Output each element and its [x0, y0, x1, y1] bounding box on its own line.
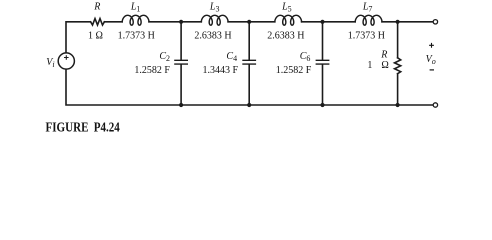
svg-text:Vi: Vi — [46, 57, 54, 69]
svg-text:L3: L3 — [209, 1, 220, 13]
svg-text:Ω: Ω — [381, 60, 388, 71]
node C junction dot bottom — [320, 103, 324, 107]
svg-text:1.3443 F: 1.3443 F — [202, 65, 238, 76]
svg-text:2.6383 H: 2.6383 H — [267, 30, 304, 41]
node B junction dot bottom — [247, 103, 251, 107]
node D junction dot top — [396, 20, 400, 24]
wire L7 to top-right terminal — [382, 21, 433, 23]
svg-text:L1: L1 — [130, 1, 141, 13]
load resistor R 1 ohm zigzag — [395, 58, 401, 74]
inductor L5 2.6383 H — [275, 15, 302, 25]
wire L5 to node C — [302, 21, 356, 23]
svg-text:1 Ω: 1 Ω — [88, 30, 103, 41]
node A junction dot top — [179, 20, 183, 24]
wire L3 to node B — [228, 21, 275, 23]
wire L1 to node A — [149, 21, 201, 23]
load resistor bottom lead — [397, 74, 399, 105]
capacitor C4 top lead — [248, 22, 250, 60]
svg-text:1: 1 — [367, 60, 372, 71]
svg-text:C4: C4 — [226, 51, 237, 63]
svg-text:1.2582 F: 1.2582 F — [276, 65, 312, 76]
svg-text:L7: L7 — [362, 1, 373, 13]
resistor R (series, 1 ohm) — [91, 19, 105, 25]
inductor L3 2.6383 H — [201, 15, 228, 25]
output terminal bottom — [433, 103, 437, 107]
svg-text:1.7373 H: 1.7373 H — [348, 30, 385, 41]
svg-text:C2: C2 — [159, 51, 170, 63]
load resistor top lead — [397, 22, 399, 58]
inductor L1 1.7373 H — [122, 15, 149, 25]
voltage source Vi circle — [58, 53, 74, 69]
svg-text:L5: L5 — [281, 1, 292, 13]
svg-text:FIGURE P4.24: FIGURE P4.24 — [46, 119, 120, 134]
wire resistor to L1 — [104, 21, 122, 23]
capacitor C6 top lead — [322, 22, 324, 60]
output plus sign — [429, 43, 434, 48]
wire source bottom to bottom rail — [66, 70, 433, 105]
node B junction dot top — [247, 20, 251, 24]
node D junction dot bottom — [396, 103, 400, 107]
svg-text:1.2582 F: 1.2582 F — [134, 65, 170, 76]
inductor L7 1.7373 H — [355, 15, 382, 25]
capacitor C4 plates — [243, 60, 255, 64]
capacitor C2 bottom lead — [180, 65, 182, 105]
output terminal top — [433, 20, 437, 24]
capacitor C2 plates — [175, 60, 187, 64]
capacitor C6 plates — [316, 60, 328, 64]
node A junction dot bottom — [179, 103, 183, 107]
capacitor C4 bottom lead — [248, 65, 250, 105]
capacitor C6 bottom lead — [322, 65, 324, 105]
plus sign inside source — [64, 55, 69, 60]
output minus sign — [430, 69, 434, 71]
svg-text:C6: C6 — [300, 51, 311, 63]
svg-text:R: R — [93, 1, 100, 12]
svg-text:1.7373 H: 1.7373 H — [118, 30, 155, 41]
svg-text:Vo: Vo — [426, 54, 436, 66]
node C junction dot top — [320, 20, 324, 24]
capacitor C2 top lead — [180, 22, 182, 60]
wire top-left from source to resistor — [66, 22, 90, 53]
svg-text:2.6383 H: 2.6383 H — [194, 30, 231, 41]
